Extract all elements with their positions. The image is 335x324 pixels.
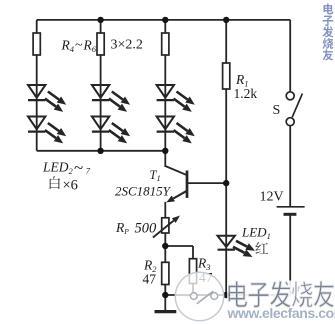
svg-text:47: 47	[143, 272, 157, 287]
svg-text:2SC1815Y: 2SC1815Y	[115, 184, 172, 199]
svg-text:500: 500	[135, 220, 158, 236]
svg-text:~: ~	[75, 38, 83, 53]
svg-text:1.2k: 1.2k	[234, 86, 258, 101]
svg-text:3×2.2: 3×2.2	[111, 38, 143, 53]
svg-text:12V: 12V	[260, 189, 284, 204]
svg-text:~: ~	[74, 158, 83, 177]
svg-text:LED1: LED1	[241, 225, 271, 241]
svg-text:www.elecfans.com: www.elecfans.com	[227, 305, 335, 321]
svg-text:7: 7	[86, 165, 91, 175]
svg-text:×6: ×6	[63, 177, 78, 193]
svg-text:S: S	[273, 103, 281, 118]
